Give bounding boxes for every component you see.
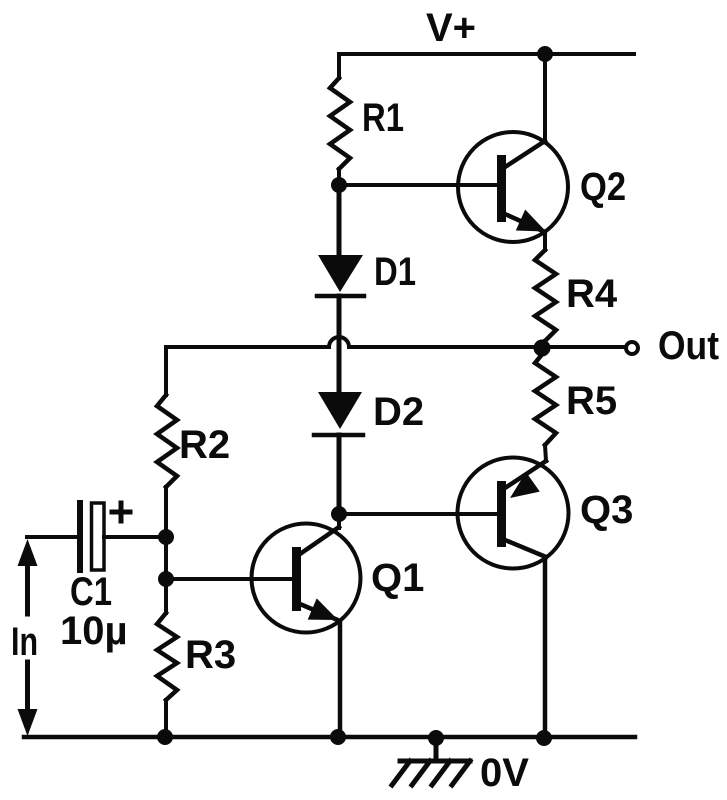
wire Q3 collector to ground rail (543, 557, 548, 737)
ground symbol (392, 739, 470, 785)
wire Q2 emitter to R4 (543, 232, 547, 250)
svg-text:R1: R1 (362, 96, 404, 140)
diode D1 (317, 255, 364, 296)
svg-text:R5: R5 (566, 379, 617, 423)
svg-text:In: In (11, 620, 38, 664)
wire R4 bottom to out node (544, 341, 545, 348)
resistor R4 (535, 250, 556, 341)
svg-text:R4: R4 (566, 272, 618, 316)
junction R3 to rail (157, 729, 173, 745)
input port arrow (In) (18, 539, 38, 736)
capacitor C1 (80, 503, 104, 570)
wire node to D1 anode (337, 185, 342, 256)
svg-text:0V: 0V (480, 751, 529, 795)
svg-text:D2: D2 (373, 390, 424, 434)
wire feedback from out line down to R2 (164, 347, 168, 395)
svg-text:Q2: Q2 (580, 165, 626, 209)
transistor Q2 (458, 132, 568, 242)
terminal Out (626, 342, 638, 354)
wire Q1 collector to node (337, 514, 341, 528)
wire Q2 base (339, 183, 497, 187)
junction R4 / R5 / Out (534, 340, 551, 357)
transistor Q1 (252, 524, 361, 633)
wire top V+ rail (339, 52, 634, 56)
junction Q1 base node (158, 571, 174, 587)
svg-text:R2: R2 (179, 423, 230, 467)
svg-text:Q1: Q1 (371, 556, 424, 600)
resistor R2 (157, 395, 177, 487)
svg-text:D1: D1 (374, 250, 416, 294)
wire D1 cathode to D2 anode (337, 296, 342, 393)
junction Q1 emitter to rail (330, 729, 346, 745)
resistor R1 (330, 78, 350, 169)
junction top rail to Q2 collector (537, 46, 553, 62)
svg-text:R3: R3 (185, 633, 236, 677)
wire Q1 base (166, 577, 292, 581)
wire R1 bottom to node (337, 169, 341, 184)
wire Q1 emitter to ground rail (338, 621, 343, 737)
transistor Q3 (458, 458, 569, 569)
junction C1 / R2 node (158, 529, 174, 545)
diode D2 (314, 392, 363, 435)
wire C1 to input node (104, 535, 166, 539)
wire R3 bottom to ground rail (164, 700, 168, 737)
wire D2 cathode to Q1 collector node (337, 435, 342, 514)
svg-text:V+: V+ (426, 6, 476, 50)
junction Q3 collector to rail (536, 730, 552, 746)
wire output line with hop over diode string (166, 337, 626, 347)
junction R1 / Q2 base / diode string (331, 177, 347, 193)
resistor R3 (157, 613, 177, 700)
junction Q1 collector / Q3 base (331, 506, 347, 522)
svg-text:10µ: 10µ (60, 609, 128, 653)
wire R5 bottom to Q3 emitter (545, 445, 546, 461)
junction ground tap (428, 730, 444, 746)
svg-text:Out: Out (658, 324, 719, 368)
wire bottom 0V rail (24, 735, 635, 740)
polarity + mark for C1 (112, 503, 130, 521)
svg-text:C1: C1 (70, 570, 112, 614)
wire R2 bottom through input nodes to R3 top (164, 487, 168, 613)
wire V+ rail to R1 top (337, 54, 341, 78)
wire Q3 base (339, 512, 497, 516)
wire Q2 collector to V+ rail (543, 54, 547, 141)
wire input to C1 (27, 535, 77, 539)
resistor R5 (535, 352, 556, 445)
svg-text:Q3: Q3 (580, 488, 633, 532)
